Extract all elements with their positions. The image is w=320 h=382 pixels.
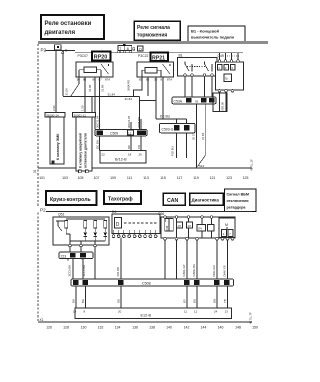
svg-text:524: 524 [199,164,204,168]
svg-text:P35 BU: P35 BU [171,146,175,156]
note box: Реле остановки двигателя [41,15,104,39]
small square mark [133,48,135,51]
svg-text:103: 103 [62,176,68,180]
D4 bottom pin circles [112,235,157,238]
connector bar C503-G [160,123,196,133]
svg-text:P3C22: P3C22 [138,54,148,58]
svg-text:140: 140 [166,326,172,330]
svg-text:11: 11 [184,310,187,314]
svg-text:CANH BU: CANH BU [192,264,196,277]
note box: B1 концевой выключатель педали [188,26,245,42]
svg-text:2.94: 2.94 [52,105,56,111]
wire stubs into C503 [177,119,187,123]
svg-text:P2: P2 [41,48,47,53]
C56 top pin circles [164,216,213,219]
svg-text:Б2: Б2 [202,99,206,103]
wire C49 pin down long [219,92,221,111]
svg-text:144: 144 [201,326,207,330]
relay RP20 body [76,62,113,77]
relay RP21 pin labels [139,78,172,82]
svg-text:20: 20 [118,310,122,314]
wire C503 pin B2 down [176,133,178,158]
note box: Круиз-контроль [46,191,97,205]
motor M sub-box [219,218,235,238]
svg-text:ретардера: ретардера [227,206,247,210]
frame lower half left dashed border [37,213,39,323]
connector bar C509 [95,130,147,136]
svg-text:111: 111 [127,176,132,180]
svg-text:148: 148 [235,326,241,330]
stubs C49 to bus [220,53,239,60]
svg-text:ЛЧ: ЛЧ [198,227,202,231]
svg-text:87A: 87A [105,78,110,82]
svg-text:GY: GY [183,299,187,303]
wire stub C509 B13 [130,122,132,130]
svg-text:Тахограф: Тахограф [108,196,133,203]
note box: Сигнал ВБМ отключения ретардера [225,189,257,212]
wire C508 B4 to E12 [75,286,77,308]
svg-text:31.89: 31.89 [101,84,105,92]
module C56 [158,212,235,238]
note box: CAN [163,193,185,205]
svg-text:ОС ВН: ОС ВН [95,140,99,149]
wire 31.84 horizontal [63,96,140,98]
svg-text:31.84: 31.84 [108,93,116,97]
svg-text:двигателя: двигателя [45,30,76,36]
svg-text:117: 117 [177,176,183,180]
svg-text:92: 92 [195,99,199,103]
wire CANH to E12 [196,286,198,308]
svg-text:Б1: Б1 [81,254,85,258]
wire DC BU horizontal [156,118,187,120]
frame upper half: left dashed border [37,44,39,207]
svg-text:Круиз-контроль: Круиз-контроль [50,197,91,203]
svg-text:Б1: Б1 [225,281,229,285]
svg-text:13: 13 [225,310,229,314]
Q51 resistor 2 [84,221,87,229]
svg-text:31: 31 [33,170,37,174]
svg-text:4173_1F: 4173_1F [250,159,254,171]
wire C53A pin B2 down [196,104,198,168]
svg-text:Б4: Б4 [71,254,75,258]
svg-text:126: 126 [46,326,52,330]
wire 223 B1 down [82,259,84,279]
svg-text:Б12: Б12 [138,131,144,135]
wire D4 down with jog [120,238,122,279]
svg-text:115: 115 [160,176,166,180]
svg-text:138: 138 [149,326,155,330]
svg-text:30C31.04: 30C31.04 [96,115,100,128]
svg-text:PD: PD [137,145,141,149]
frame lower half top line [46,211,252,213]
Q51 resistor 4 [104,221,107,229]
svg-text:125: 125 [243,176,249,180]
valve B body: К клапану аварийной остановки [76,117,92,173]
svg-text:Реле остановки: Реле остановки [45,21,92,27]
svg-text:Б1: Б1 [185,281,189,285]
svg-text:132: 132 [98,326,104,330]
svg-text:87A: 87A [167,78,172,82]
svg-text:368A RD: 368A RD [137,117,141,128]
svg-text:13: 13 [128,131,132,135]
wire C508 B4 tacho to E12 [120,286,122,308]
svg-text:C49: C49 [218,54,224,58]
small box O [138,46,144,51]
wire RP20 pin30 down [71,77,79,96]
svg-text:121: 121 [210,176,216,180]
tachograph D4 [112,210,160,235]
svg-text:DC BU: DC BU [160,115,171,119]
connector bar C53A [172,97,216,104]
svg-text:4173_7F: 4173_7F [249,312,253,324]
svg-text:C53A: C53A [174,99,183,103]
svg-text:D4: D4 [112,210,116,214]
svg-text:31.06: 31.06 [65,88,69,96]
junction box with mark [55,45,68,54]
wire C508 B1 to E12 [85,286,87,308]
svg-text:DIAL GN: DIAL GN [212,265,216,276]
svg-text:3CC6.BH: 3CC6.BH [68,265,72,277]
switch B1 [178,54,218,77]
svg-text:В/12-В: В/12-В [115,158,127,162]
svg-text:1Л: 1Л [178,224,182,228]
fuse box 7/8 [118,44,132,53]
svg-text:торможения: торможения [137,33,167,39]
svg-text:119: 119 [193,176,199,180]
wire 31.06 down [62,54,64,96]
svg-text:109: 109 [110,176,116,180]
Q51 internal left wires [66,228,95,244]
svg-text:30: 30 [77,78,81,82]
svg-text:CAN: CAN [167,198,178,204]
svg-text:C509: C509 [110,132,118,136]
Q51 diode 2 [93,228,97,241]
svg-text:87: 87 [99,78,103,82]
svg-text:685.00: 685.00 [221,102,225,111]
grid numbers lower half [46,326,258,330]
svg-text:368A RD: 368A RD [127,80,131,91]
svg-text:30C21.05: 30C21.05 [127,115,131,128]
C56 bottom pin circles [164,238,234,241]
svg-text:236.ОБ: 236.ОБ [116,267,120,277]
wire DIAG to E12 [216,286,218,308]
svg-text:X1: X1 [40,318,44,322]
svg-text:105: 105 [78,176,84,180]
svg-text:Сигнал ВБМ: Сигнал ВБМ [227,193,250,197]
svg-text:123: 123 [226,176,232,180]
svg-text:BU: BU [193,299,197,303]
connector C49 [216,54,244,92]
svg-text:128: 128 [63,326,69,330]
wire Q51 pin3 down to C508 [94,247,96,279]
gray separator line [38,41,268,44]
svg-text:12: 12 [194,310,198,314]
svg-text:3CC6.BH: 3CC6.BH [82,265,86,277]
svg-text:RP20: RP20 [94,55,108,61]
svg-text:8: 8 [127,47,129,51]
svg-text:31.88: 31.88 [88,84,92,92]
connector bar C508 [71,279,234,286]
svg-text:Б1: Б1 [185,127,189,131]
Q51 resistor 3 [94,221,97,229]
C56 internal label boxes [165,218,214,237]
wire C56 pin b down [176,240,178,279]
svg-text:87: 87 [161,78,165,82]
svg-text:C: C [65,48,68,52]
wire label 685.00 bracket [213,93,227,112]
svg-text:223: 223 [61,254,67,258]
wire CANL to E12 [186,286,188,308]
wire: top bus left segment [46,50,76,52]
valve A header [45,113,65,118]
svg-text:24: 24 [214,310,218,314]
unit E12-B [73,308,232,319]
svg-text:GN: GN [213,299,217,303]
Q51 bottom pins [69,244,97,247]
svg-text:DIAK YB: DIAK YB [222,265,226,276]
svg-text:ОС: ОС [127,145,131,149]
relay RP20 tag [92,52,111,61]
svg-text:BH: BH [81,299,85,303]
note box: Тахограф [104,191,141,204]
svg-text:отключения: отключения [227,199,249,203]
svg-text:31.84: 31.84 [125,97,133,101]
Q51 diode 1 [83,228,87,241]
wire into C509 pin B12 [140,119,142,130]
svg-text:M: M [225,223,228,227]
svg-text:В1 - Концевой: В1 - Концевой [191,29,220,34]
svg-text:130: 130 [81,326,87,330]
svg-text:18: 18 [128,153,132,157]
svg-text:1Л: 1Л [188,224,192,228]
svg-text:B1: B1 [179,54,183,58]
wire RP21 pin86 down [147,77,149,96]
svg-text:Е12-В: Е12-В [141,313,152,317]
wire branch down to frame [91,96,93,168]
svg-text:1.50: 1.50 [81,105,85,111]
wire RP20 pin87 down to C509 [99,77,101,130]
note box: Диагностика [190,193,224,205]
wire CAN L down [186,240,188,279]
svg-text:Б2: Б2 [175,127,179,131]
svg-text:O: O [139,47,142,51]
svg-text:BH: BH [72,299,76,303]
wire C49 pin down short [225,92,227,111]
wire C56 pin a down [164,240,166,279]
wire motor to E12 [227,286,229,308]
svg-text:P3C07: P3C07 [78,54,88,58]
valve A body: К клапану останова [50,117,64,164]
switch unit Q51 [53,213,109,246]
valve B header [73,113,96,118]
connector bar 223 [59,252,93,259]
unit B/12-B [100,151,146,164]
relay RP21 body [137,62,174,77]
wire RP21 pin85 down [134,77,143,96]
wire: top bus right segment [75,52,243,54]
svg-text:RP21: RP21 [152,56,165,62]
svg-text:Тр: Тр [225,77,229,81]
Q51 internal top bus [66,218,105,220]
svg-text:К клапану ЭМК: К клапану ЭМК [56,133,60,160]
Q51 diode 3 [103,228,107,241]
svg-text:136: 136 [132,326,138,330]
wire C503 pin B1 down [186,133,188,158]
Q51 internal bottom bus [70,240,105,242]
note box: Реле сигнала торможения [134,21,180,40]
svg-text:Б4: Б4 [119,281,123,285]
svg-text:К клапану аварийной: К клапану аварийной [79,133,83,168]
svg-text:остановки двигателя: остановки двигателя [84,133,88,168]
svg-text:Б1: Б1 [195,281,199,285]
Q51 resistor 1 [65,221,68,229]
wire B1 pin4 down [211,76,213,97]
wire 223 B4 down [72,259,74,279]
wire RP20 pin86 to valve B [84,77,86,113]
wire B1 pin1 down [184,76,186,97]
svg-text:C46: C46 [165,225,169,230]
svg-text:146: 146 [218,326,224,330]
wire C509 right end to RP21 pin30 [140,100,157,102]
svg-text:85: 85 [93,78,97,82]
wire Q51 pin1 down [69,247,71,252]
wire 31.05 down to valve A [55,51,57,113]
wire Q51 pin2 down [80,247,82,252]
wire B1 pin3 down [204,76,206,97]
wire RP21 pin87 down [162,77,164,119]
svg-text:Б4: Б4 [97,131,101,135]
svg-text:142: 142 [184,326,190,330]
wire C509 B12 down to E12 [140,136,142,151]
svg-text:Б2: Б2 [215,281,219,285]
wire C509 B4 down to E12 [99,136,101,151]
svg-text:101: 101 [39,176,45,180]
svg-text:Б4: Б4 [74,281,78,285]
wire C509 13 down to E12 [130,136,132,151]
svg-text:D: D [116,222,120,228]
svg-text:C56: C56 [158,212,164,216]
svg-text:31 Б6: 31 Б6 [201,132,205,140]
svg-text:26: 26 [139,153,143,157]
svg-text:C503-G: C503-G [162,128,174,132]
svg-text:C508: C508 [142,282,151,286]
svg-text:Q51: Q51 [58,213,65,217]
svg-text:113: 113 [143,176,149,180]
svg-text:Б1: Б1 [187,99,191,103]
wire CAN H down [196,240,198,279]
svg-text:134: 134 [115,326,121,330]
wire DIAG down [216,240,218,279]
svg-text:150: 150 [252,326,258,330]
wire motor down [227,240,229,279]
svg-text:Реле сигнала: Реле сигнала [137,25,170,31]
svg-text:Б1: Б1 [83,281,87,285]
wire B1 pin2 down [191,76,193,97]
frame upper half bottom line [38,167,252,169]
svg-text:Диагностика: Диагностика [192,197,220,202]
svg-text:26 31: 26 31 [192,133,196,140]
svg-text:14: 14 [73,310,77,314]
svg-text:P2: P2 [40,208,46,213]
svg-text:22: 22 [102,153,106,157]
wire C53A pin B1 down with off-sheet diagonal [198,104,206,168]
svg-text:CANL GY: CANL GY [182,264,186,276]
frame lower half bottom line [38,321,252,323]
grid numbers upper half [39,176,248,180]
svg-text:107: 107 [94,176,100,180]
svg-text:выключатель педали: выключатель педали [191,35,235,40]
wire RP20 pin85 down [94,77,96,130]
svg-text:YB: YB [223,299,227,303]
relay RP21 tag [151,53,169,62]
svg-text:ОБ: ОБ [117,299,121,303]
relay RP20 pin labels [77,78,111,82]
